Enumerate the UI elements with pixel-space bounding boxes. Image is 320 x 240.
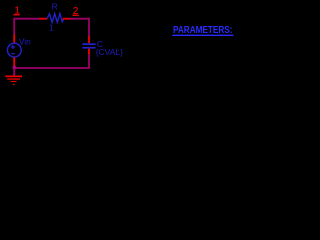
wire top-right horizontal xyxy=(70,18,89,20)
ground stem xyxy=(13,68,15,76)
capacitor C1 top pin xyxy=(88,36,90,43)
capacitor C1 plates xyxy=(82,43,95,45)
voltage source V1 circle xyxy=(7,43,21,57)
svg-text:{CVAL}: {CVAL} xyxy=(96,47,123,57)
svg-text:PARAMETERS:: PARAMETERS: xyxy=(173,25,233,36)
svg-text:Vin: Vin xyxy=(19,37,31,47)
PARAMETERS: label xyxy=(172,25,233,36)
wire left vertical xyxy=(13,18,15,35)
ground bar 1 xyxy=(5,76,22,78)
resistor R1 right pin xyxy=(63,18,70,20)
resistor R1 left pin xyxy=(39,18,47,20)
voltage source plus sign xyxy=(11,45,15,49)
wire top horizontal xyxy=(14,18,40,20)
junction dot xyxy=(13,66,16,69)
wire right vertical lower xyxy=(88,54,90,68)
voltage source minus sign xyxy=(11,53,15,55)
voltage source V1 bottom pin xyxy=(13,57,15,66)
node 1 label xyxy=(13,5,20,17)
capacitor C1 bottom pin xyxy=(88,49,90,55)
wire bottom horizontal xyxy=(14,67,90,69)
ground bar 2 xyxy=(7,78,20,79)
resistor R1 body xyxy=(47,14,63,23)
svg-text:R: R xyxy=(52,1,58,11)
ground bar 4 xyxy=(13,84,15,85)
wire right vertical upper xyxy=(88,18,90,37)
ground bar 3 xyxy=(11,81,17,82)
node 2 label xyxy=(73,6,79,17)
svg-text:1: 1 xyxy=(49,23,54,33)
voltage source V1 top pin xyxy=(13,35,15,44)
